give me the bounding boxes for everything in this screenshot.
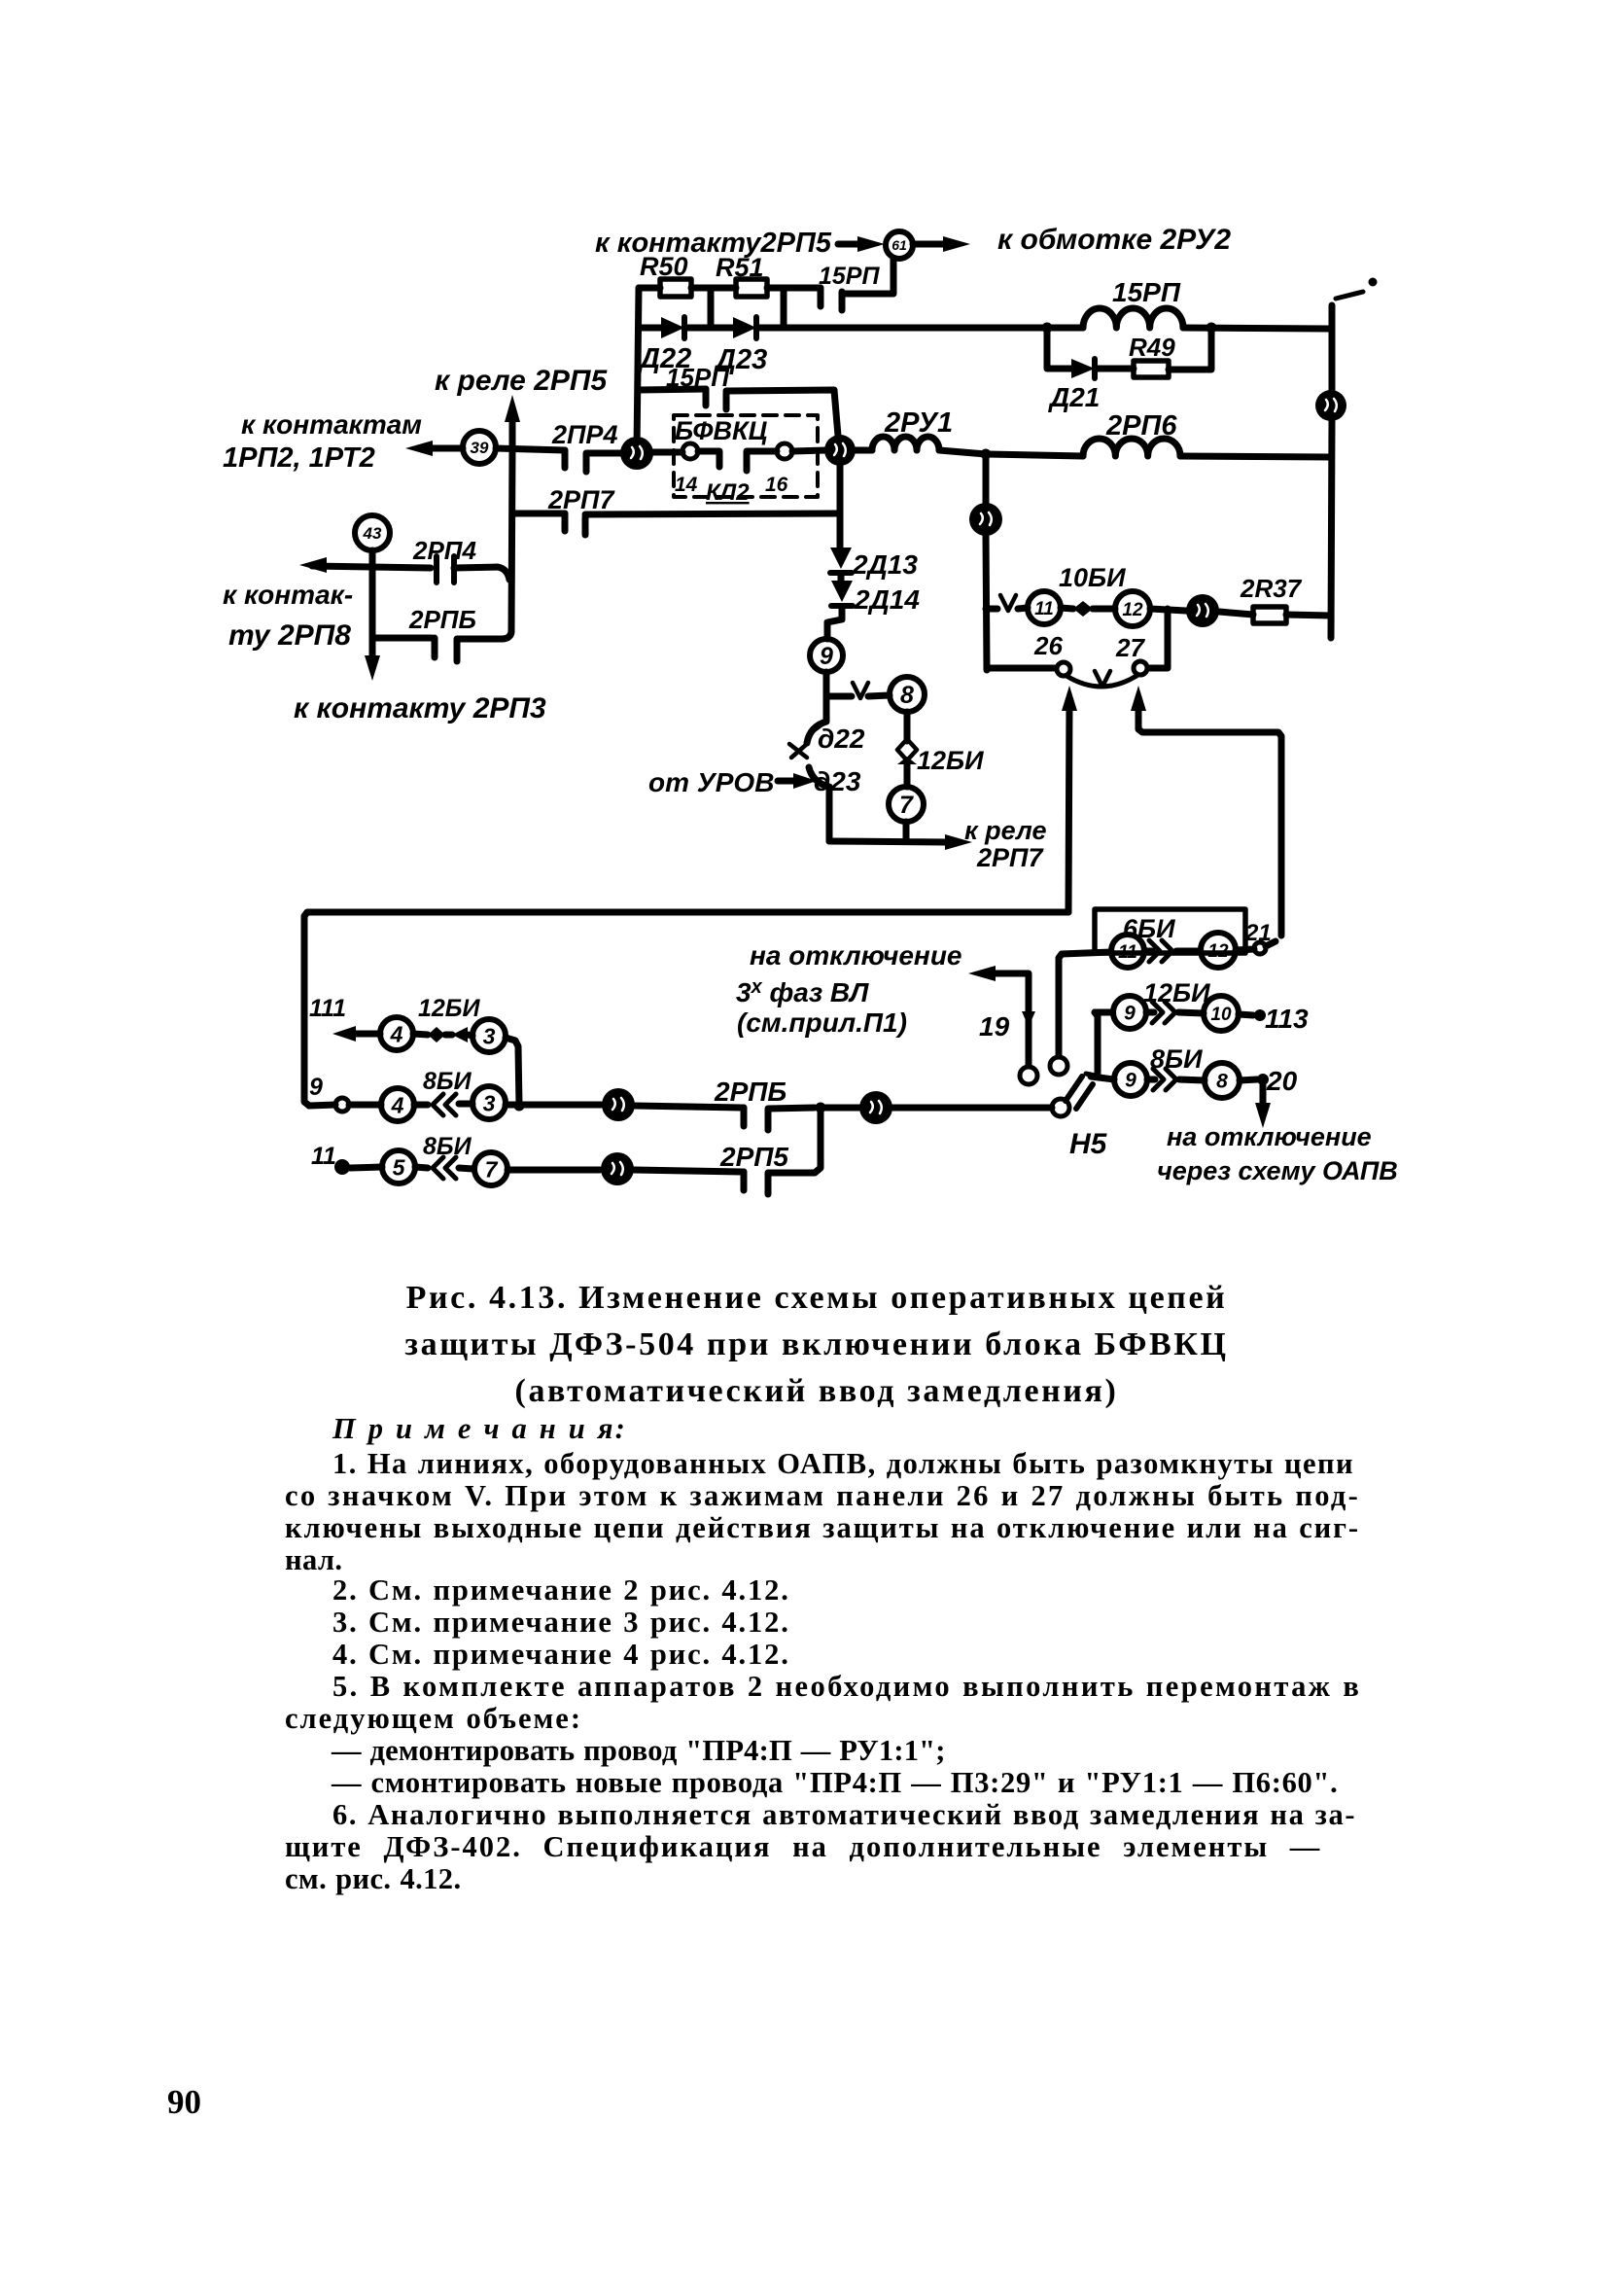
svg-text:20: 20 <box>1266 1066 1298 1096</box>
svg-text:3: 3 <box>483 1023 496 1048</box>
svg-text:БФВКЦ: БФВКЦ <box>675 416 768 445</box>
svg-text:10: 10 <box>1210 1005 1232 1025</box>
contact 2RP7 <box>512 511 565 517</box>
svg-text:12: 12 <box>1207 941 1229 962</box>
svg-text:R50: R50 <box>640 252 688 281</box>
contact 2PR4 <box>562 450 569 468</box>
contact 2RP4 (break) <box>437 556 454 583</box>
svg-text:8: 8 <box>1216 1071 1228 1093</box>
node 29 <box>620 437 653 470</box>
node 32 <box>1315 390 1346 421</box>
wire <box>586 450 622 457</box>
wire: down to blade contact <box>1095 1012 1098 1073</box>
terminal 61 <box>886 231 913 259</box>
wire: removable jumper 26-27 with V mark <box>1066 676 1136 687</box>
coil 15RP <box>1083 308 1183 328</box>
svg-text:2РП6: 2РП6 <box>1105 410 1177 442</box>
svg-text:на отключение: на отключение <box>750 940 962 971</box>
wire: 12BI branch <box>904 712 911 741</box>
contact 15RP (top, to terminal 61) <box>818 288 824 306</box>
wire: vertical through terminal 30 <box>986 454 987 670</box>
wire: from UROV arrow <box>778 778 803 785</box>
wire: tie verticals between rails <box>711 288 784 328</box>
wire: line 19 with arrow <box>982 973 1029 1066</box>
svg-text:3: 3 <box>483 1090 496 1115</box>
wire: diode rail / main bus y=337 <box>639 325 1083 332</box>
contact 2RPB <box>432 638 438 657</box>
terminal 9 <box>810 639 843 672</box>
wire: to relay 2RP5 (up arrow) <box>509 416 516 449</box>
wire: 6BI row <box>1062 952 1111 954</box>
jack plug 22 <box>807 697 826 743</box>
wire <box>838 575 845 581</box>
svg-text:2РУ1: 2РУ1 <box>884 407 953 439</box>
svg-text:7: 7 <box>899 792 914 819</box>
wire: row from vertical to terminal 26 <box>987 665 1055 672</box>
node 20 <box>601 1152 634 1185</box>
svg-text:27: 27 <box>1115 633 1145 662</box>
svg-text:2РП5: 2РП5 <box>719 1142 788 1172</box>
svg-text:Н5: Н5 <box>1069 1128 1108 1160</box>
svg-text:1РП2, 1РТ2: 1РП2, 1РТ2 <box>223 442 375 474</box>
svg-text:12: 12 <box>1122 600 1143 620</box>
terminal 4 <box>381 1088 414 1121</box>
svg-text:на отключение: на отключение <box>1167 1122 1372 1151</box>
terminal 21 <box>1254 942 1266 954</box>
svg-text:19: 19 <box>979 1011 1010 1042</box>
wire: lead to contact 2RP5 with arrow into terminal 61 <box>838 241 871 248</box>
diode D23 <box>733 317 756 338</box>
svg-text:14: 14 <box>675 474 698 496</box>
jack plug 23 <box>809 767 829 841</box>
wire <box>1286 615 1331 616</box>
wire jog to terminal 9 <box>827 608 842 639</box>
terminal 11 <box>1111 935 1144 968</box>
contact 2-RPB <box>741 1108 748 1126</box>
node junction <box>1206 323 1217 334</box>
svg-text:8БИ: 8БИ <box>423 1133 472 1160</box>
svg-text:2ПР4: 2ПР4 <box>551 420 617 449</box>
svg-text:5: 5 <box>393 1154 406 1180</box>
svg-text:2РП7: 2РП7 <box>547 485 615 514</box>
coil 2RU1 <box>855 447 872 454</box>
wire: up to row 9 <box>768 1108 821 1176</box>
svg-text:2Д13: 2Д13 <box>852 549 918 580</box>
svg-text:к контакту 2РП3: к контакту 2РП3 <box>294 692 546 724</box>
node junction <box>1042 323 1053 334</box>
svg-text:9: 9 <box>1125 1070 1136 1092</box>
terminal 7 <box>474 1152 507 1185</box>
node 28 <box>824 435 856 466</box>
terminal 11 <box>1028 591 1061 624</box>
contact KL2 pin 16 <box>777 443 792 459</box>
node 24 <box>859 1091 892 1124</box>
wire: vertical from node 28 down <box>837 465 844 548</box>
wire: R49/D21 parallel branch <box>1047 328 1211 370</box>
node 14 <box>602 1088 635 1121</box>
svg-text:через схему ОАПВ: через схему ОАПВ <box>1157 1156 1398 1185</box>
svg-text:4: 4 <box>391 1092 404 1117</box>
svg-text:61: 61 <box>891 237 907 253</box>
wire: top rail R50/R51 row <box>639 285 821 292</box>
svg-text:4: 4 <box>390 1021 403 1046</box>
wire <box>792 450 826 451</box>
diode D21 <box>1071 359 1095 378</box>
wire <box>585 513 840 514</box>
terminal 26 <box>1057 662 1070 676</box>
terminal stub <box>335 1098 349 1112</box>
svg-text:9: 9 <box>309 1074 323 1101</box>
marker chevrons <box>1149 940 1172 962</box>
terminal 5 <box>382 1150 415 1183</box>
node junction <box>816 1103 826 1113</box>
marker 12BI diamond <box>897 739 917 760</box>
wire <box>1183 328 1330 329</box>
wire to switch N5 <box>892 1105 1052 1112</box>
wire: down to switch contact <box>1059 954 1062 1056</box>
wire: arrow to winding 2RU2 <box>913 241 955 248</box>
wire <box>823 672 830 697</box>
svg-text:7: 7 <box>485 1156 499 1182</box>
terminal 12 <box>1201 933 1236 968</box>
node junction <box>981 449 992 460</box>
svg-text:к контак-: к контак- <box>223 580 353 610</box>
diode 2D14 <box>831 581 853 602</box>
switch contact <box>1050 1057 1067 1075</box>
wire: continuation dash-dot mark <box>1336 292 1363 299</box>
svg-text:9: 9 <box>820 643 833 670</box>
svg-text:113: 113 <box>1265 1004 1309 1034</box>
svg-text:к реле 2РП5: к реле 2РП5 <box>435 365 608 397</box>
svg-text:(см.прил.П1): (см.прил.П1) <box>737 1007 907 1038</box>
node 44 <box>1186 594 1219 627</box>
terminal 43 <box>355 515 390 550</box>
wire <box>634 1170 744 1172</box>
svg-text:11: 11 <box>1034 599 1054 619</box>
wire: arrow to contacts 1RP2,1RT2 <box>428 445 463 452</box>
svg-text:д22: д22 <box>818 724 865 754</box>
svg-text:к контактам: к контактам <box>241 409 422 440</box>
svg-text:2РП4: 2РП4 <box>412 536 477 565</box>
resistor R51 <box>736 279 767 297</box>
wire: bottom lead to relay 2RP7 <box>829 822 946 842</box>
svg-text:12БИ: 12БИ <box>917 746 984 775</box>
wire <box>1150 609 1186 611</box>
svg-text:10БИ: 10БИ <box>1059 563 1126 592</box>
svg-text:11: 11 <box>311 1143 336 1170</box>
svg-text:2R37: 2R37 <box>1240 574 1303 603</box>
svg-text:8БИ: 8БИ <box>423 1068 472 1095</box>
contact 2RP5 <box>741 1172 748 1190</box>
wire: down arrow to OAPV note <box>1260 1085 1267 1113</box>
svg-text:16: 16 <box>765 474 788 496</box>
svg-text:КЛ2: КЛ2 <box>706 479 750 506</box>
marker diamond <box>1073 601 1093 617</box>
svg-text:15РП: 15РП <box>819 263 880 290</box>
svg-text:3х фаз ВЛ: 3х фаз ВЛ <box>736 976 869 1007</box>
diode D22 <box>661 317 684 338</box>
wire: long horizontal bus <box>304 912 1068 1106</box>
contact 15RP (above BFVKTs) <box>639 389 706 390</box>
terminal 12 <box>1115 591 1150 626</box>
wire + hooks inside KL2 <box>652 451 777 471</box>
svg-text:д23: д23 <box>814 766 861 796</box>
terminal 3 <box>472 1019 506 1052</box>
svg-text:43: 43 <box>363 524 382 543</box>
resistor R50 <box>660 279 691 297</box>
block BFVKTs dashed box <box>674 415 818 497</box>
svg-text:Д21: Д21 <box>1048 382 1100 412</box>
svg-text:12БИ: 12БИ <box>418 995 481 1022</box>
svg-text:к контакту2РП5: к контакту2РП5 <box>595 228 832 259</box>
svg-text:2РП7: 2РП7 <box>976 843 1044 872</box>
svg-text:2Д14: 2Д14 <box>854 584 920 615</box>
svg-text:9: 9 <box>1124 1003 1136 1025</box>
svg-text:от УРОВ: от УРОВ <box>648 767 774 797</box>
terminal 4 <box>380 1017 413 1050</box>
wire: corner down to row 9 <box>506 1038 519 1106</box>
wire: 10BI row with V mark <box>986 608 1028 609</box>
wire: up arrow from 27, jog right and down to terminal 21 <box>1138 702 1281 936</box>
wire branch with V mark to terminal 8 <box>826 695 890 696</box>
wire <box>1236 941 1276 950</box>
wire <box>635 1106 744 1108</box>
svg-text:2РПБ: 2РПБ <box>408 605 476 634</box>
svg-text:15РП: 15РП <box>666 363 730 392</box>
switch N5 <box>1020 1067 1037 1084</box>
wire <box>454 567 509 580</box>
wire: main vertical down <box>502 449 512 639</box>
wire <box>1219 612 1253 615</box>
svg-text:11: 11 <box>1118 942 1137 963</box>
svg-text:R51: R51 <box>716 253 764 282</box>
svg-text:к обмотке 2РУ2: к обмотке 2РУ2 <box>997 224 1231 256</box>
terminal 39 <box>463 431 496 464</box>
x mark <box>789 744 807 758</box>
terminal 7 <box>889 787 924 822</box>
svg-text:26: 26 <box>1033 631 1063 660</box>
resistor R49 <box>1134 361 1169 377</box>
resistor 2R37 <box>1253 607 1286 623</box>
svg-text:8БИ: 8БИ <box>1150 1044 1203 1074</box>
wire <box>369 550 376 659</box>
terminal 27 <box>1134 661 1147 675</box>
wire: right rail vertical <box>1331 305 1332 638</box>
wire: bottom row of block <box>372 635 432 642</box>
wire: drop to terminal 27 <box>1149 609 1168 668</box>
svg-text:R49: R49 <box>1129 333 1175 362</box>
node junction <box>514 1101 525 1112</box>
contact KL2 pin 14 <box>682 443 698 459</box>
svg-text:ту 2РП8: ту 2РП8 <box>228 619 351 652</box>
svg-text:2РПБ: 2РПБ <box>714 1077 787 1107</box>
wire <box>939 450 986 454</box>
wire <box>496 448 565 450</box>
diode 2D13 <box>830 548 852 569</box>
wire <box>1180 456 1330 457</box>
terminal 8 <box>890 677 925 712</box>
wire: up arrow from 26 down to long bus <box>1068 702 1069 912</box>
node 30 <box>969 503 1002 536</box>
svg-text:39: 39 <box>471 439 489 457</box>
wire: row with arrow to contact 2RP8 <box>312 566 431 568</box>
marker diamond-arrow <box>428 1027 445 1042</box>
coil 2RP6 <box>986 454 1083 456</box>
svg-text:111: 111 <box>309 995 346 1022</box>
svg-text:15РП: 15РП <box>1112 277 1181 307</box>
box BBI <box>1095 909 1245 953</box>
wire: left rail vertical <box>637 288 639 449</box>
terminal 3 <box>472 1086 506 1119</box>
svg-text:8: 8 <box>900 682 914 709</box>
svg-text:к реле: к реле <box>964 816 1046 845</box>
